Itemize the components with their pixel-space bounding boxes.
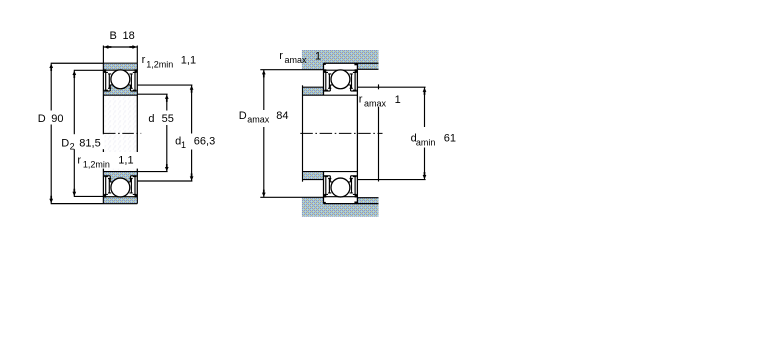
inner ring side band fill (bottom, left view)	[104, 172, 137, 176]
svg-text:amin: amin	[416, 137, 436, 147]
inner ring shoulder edge right (top, right view)	[351, 90, 357, 92]
text box D 90	[36, 111, 65, 125]
dimension da line	[424, 88, 426, 180]
shield left inner stroke (top, right view)	[328, 74, 331, 88]
housing contact corner bottom-right (right view)	[354, 202, 357, 204]
inner ring shoulder edge left (bottom, left view)	[104, 175, 110, 177]
svg-text:1: 1	[395, 94, 401, 106]
outer ring raceway edge (top, right view)	[324, 69, 358, 71]
shaft shoulder section lower (right view)	[303, 172, 324, 179]
svg-text:1,2min: 1,2min	[146, 59, 173, 69]
housing shoulder bore edge lower (right view)	[358, 197, 379, 199]
shield right inner stroke (bottom, right view)	[350, 179, 353, 193]
ring bore/seat edge (bottom, left view)	[103, 171, 137, 173]
dimension D line	[50, 64, 52, 204]
svg-text:55: 55	[162, 113, 174, 125]
inner ring land step left (bottom, left view)	[109, 176, 111, 182]
inner ring land step right (bottom, right view)	[350, 176, 352, 182]
inner ring shoulder edge left (top, right view)	[324, 90, 330, 92]
housing shoulder bore edge upper (right view)	[358, 68, 379, 70]
inner ring raceway land edge (top, right view)	[330, 84, 350, 86]
shield groove corner right (bottom, left view)	[135, 194, 138, 197]
dimension d arrow bottom	[165, 164, 169, 171]
shaft seat surface upper (right view)	[303, 94, 324, 96]
inner ring land step left (top, left view)	[109, 85, 111, 91]
ring bore/seat edge (top, right view)	[324, 94, 358, 96]
dimension da extension line bottom	[358, 179, 426, 181]
bearing left face upper (right view)	[323, 63, 325, 95]
shield left inner stroke (bottom, right view)	[328, 179, 331, 193]
shaft section left end face (right view)	[302, 85, 304, 181]
inner ring shoulder edge right (top, left view)	[131, 90, 137, 92]
dimension B arrow left	[104, 45, 111, 49]
outer ring raceway edge (bottom, left view)	[103, 196, 137, 198]
svg-text:r: r	[279, 50, 283, 62]
ring bore/seat edge (bottom, right view)	[324, 171, 358, 173]
dimension Da line	[263, 70, 265, 197]
shield right outer stroke (bottom, left view)	[133, 177, 137, 195]
ra reference line lower (right view)	[378, 107, 380, 182]
shield left outer stroke (bottom, right view)	[324, 177, 328, 195]
shield groove corner left (top, right view)	[324, 69, 327, 72]
inner ring mid band fill (top, left view)	[110, 85, 130, 95]
housing contact corner top-left (right view)	[324, 63, 326, 65]
svg-text:1: 1	[181, 140, 186, 150]
text box Da 84	[237, 110, 293, 127]
bearing top edge + D extension line (left view)	[51, 62, 138, 64]
text box da 61	[409, 127, 457, 148]
shaft shoulder diameter edge lower (right view)	[303, 179, 324, 181]
dimension d line	[166, 95, 168, 172]
svg-text:D: D	[38, 113, 46, 125]
ball (top, right view)	[331, 70, 350, 89]
bearing bottom edge + housing bore line (right view)	[324, 203, 379, 205]
shield right inner stroke (bottom, left view)	[130, 179, 133, 193]
shield groove corner left (bottom, right view)	[324, 194, 327, 197]
svg-text:d: d	[148, 113, 154, 125]
outer ring raceway edge (top, left view)	[103, 69, 137, 71]
dimension da arrow bottom	[423, 172, 427, 179]
inner ring raceway land edge (bottom, left view)	[110, 181, 130, 183]
svg-text:90: 90	[51, 113, 63, 125]
text box r12min bottom	[76, 152, 138, 169]
shaft shoulder section upper (right view)	[303, 88, 324, 95]
housing section upper (right view)	[302, 50, 379, 70]
svg-text:84: 84	[276, 110, 288, 122]
inner ring mid band fill (bottom, left view)	[110, 172, 130, 182]
dimension d1 arrow top	[190, 85, 194, 92]
shield right inner stroke (top, left view)	[130, 74, 133, 88]
svg-text:1,1: 1,1	[181, 54, 196, 66]
svg-text:amax: amax	[247, 115, 270, 125]
bearing right face (left view)	[136, 63, 138, 203]
dimension da extension line top	[358, 86, 426, 88]
shield right outer stroke (top, left view)	[133, 72, 137, 90]
outer ring raceway edge (bottom, right view)	[324, 196, 358, 198]
dimension Da arrow top	[262, 70, 266, 77]
shield right outer stroke (bottom, right view)	[353, 177, 357, 195]
bearing left face (left view)	[102, 63, 104, 203]
inner ring shoulder edge left (top, left view)	[104, 90, 110, 92]
dimension B line	[103, 46, 137, 48]
housing section lower (right view)	[302, 197, 379, 217]
inner ring land step right (top, right view)	[350, 85, 352, 91]
text box d1 66,3	[173, 134, 216, 150]
svg-text:amax: amax	[285, 55, 308, 65]
faint hatch inside bearing bore (left view)	[105, 96, 137, 171]
svg-text:r: r	[359, 94, 363, 106]
shield left inner stroke (bottom, left view)	[108, 179, 111, 193]
svg-text:D: D	[61, 137, 69, 149]
inner ring land step right (bottom, left view)	[130, 176, 132, 182]
dimension d1 extension line top	[137, 84, 192, 86]
svg-text:D: D	[239, 110, 247, 122]
shield left inner stroke (top, left view)	[108, 74, 111, 88]
bearing right face + shaft end (right view)	[356, 63, 358, 203]
svg-text:61: 61	[444, 133, 456, 145]
inner ring side band fill (top, left view)	[104, 91, 137, 95]
housing contact corner top-right (right view)	[354, 63, 357, 65]
dimension Da extension line top	[260, 69, 323, 71]
dimension B extension line left	[102, 46, 104, 64]
svg-text:1: 1	[315, 51, 321, 63]
text box D2 81,5	[59, 134, 105, 149]
shield groove corner right (top, left view)	[135, 69, 138, 72]
outer ring section fill (bottom, left view)	[104, 197, 137, 203]
svg-text:18: 18	[123, 30, 135, 42]
ball (top, left view)	[111, 70, 130, 89]
inner ring shoulder edge right (bottom, right view)	[351, 175, 357, 177]
ring bore/seat edge (top, left view)	[103, 94, 137, 96]
svg-text:B: B	[110, 30, 117, 42]
inner ring raceway land edge (bottom, right view)	[330, 181, 350, 183]
svg-text:81,5: 81,5	[79, 137, 100, 149]
ball (bottom, left view)	[111, 178, 130, 197]
svg-text:2: 2	[70, 141, 75, 151]
dimension D arrow bottom	[49, 196, 53, 203]
shaft shoulder diameter edge upper (right view)	[303, 86, 324, 88]
dimension D2 arrow top	[72, 71, 76, 78]
dimension da arrow top	[423, 88, 427, 95]
dimension D2 line	[73, 71, 75, 197]
dimension d1 line	[191, 85, 193, 180]
dimension d extension line bottom	[137, 171, 167, 173]
dimension d arrow top	[165, 95, 169, 102]
dimension D arrow top	[49, 64, 53, 71]
svg-text:amax: amax	[364, 99, 387, 109]
shield groove corner right (bottom, right view)	[355, 194, 358, 197]
shield right outer stroke (top, right view)	[353, 72, 357, 90]
centerline axis (right view)	[300, 132, 382, 134]
dimension D2 extension line top	[74, 69, 104, 71]
inner ring shoulder edge left (bottom, right view)	[324, 175, 330, 177]
bearing top edge + housing bore line (right view)	[324, 62, 379, 64]
dimension d1 extension line bottom	[137, 180, 192, 182]
svg-text:r: r	[142, 54, 146, 66]
svg-text:66,3: 66,3	[194, 136, 215, 148]
inner ring land step right (top, left view)	[130, 85, 132, 91]
text box ra max mid	[358, 89, 401, 107]
inner ring land step left (top, right view)	[329, 85, 331, 91]
bearing left face lower (right view)	[323, 172, 325, 204]
svg-text:1,1: 1,1	[118, 155, 133, 167]
text box d 55	[146, 111, 176, 126]
inner ring land step left (bottom, right view)	[329, 176, 331, 182]
shield groove corner left (bottom, left view)	[103, 194, 106, 197]
shield left outer stroke (top, left view)	[104, 72, 108, 90]
dimension Da extension line bottom	[260, 196, 323, 198]
dimension d1 arrow bottom	[190, 173, 194, 180]
inner ring shoulder edge right (bottom, left view)	[131, 175, 137, 177]
ball (bottom, right view)	[331, 178, 350, 197]
svg-text:r: r	[77, 154, 81, 166]
shield groove corner right (top, right view)	[355, 69, 358, 72]
dimension d extension line top	[137, 93, 167, 95]
shaft seat surface lower (right view)	[303, 171, 324, 173]
housing contact corner bottom-left (right view)	[324, 202, 326, 204]
svg-text:1,2min: 1,2min	[83, 159, 110, 169]
ra reference line tick upper (right view)	[378, 84, 380, 89]
centerline axis (left view)	[104, 132, 141, 134]
outer ring section fill (top, left view)	[104, 64, 137, 70]
shield left outer stroke (top, right view)	[324, 72, 328, 90]
shield left outer stroke (bottom, left view)	[104, 177, 108, 195]
dimension D2 extension line bottom	[74, 195, 104, 197]
dimension B extension line right	[136, 46, 138, 64]
shield groove corner left (top, left view)	[103, 69, 106, 72]
dimension D2 arrow bottom	[72, 189, 76, 196]
inner ring raceway land edge (top, left view)	[110, 84, 130, 86]
dimension Da arrow bottom	[262, 190, 266, 197]
shield right inner stroke (top, right view)	[350, 74, 353, 88]
dimension B arrow right	[129, 45, 136, 49]
bearing bottom edge + D extension line (left view)	[51, 203, 138, 205]
